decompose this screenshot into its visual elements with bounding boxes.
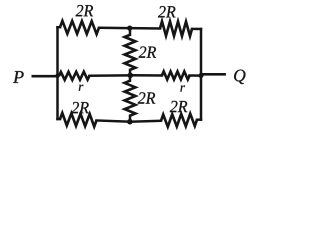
resistor r middle-left	[59, 72, 90, 80]
node Q terminal label	[234, 70, 245, 84]
wire right rail	[200, 29, 203, 120]
label r middle-right	[180, 85, 185, 91]
wire top-mid-left	[99, 26, 130, 29]
wire column mid lead	[129, 70, 132, 81]
label 2R top-left	[76, 5, 93, 16]
wire from P	[33, 75, 58, 78]
node junction left-middle	[55, 74, 59, 78]
label 2R top-right	[158, 6, 175, 17]
wire left rail	[56, 27, 59, 119]
node P terminal label	[13, 71, 24, 83]
resistor 2R top-left	[60, 21, 99, 34]
resistor 2R top-right	[160, 21, 192, 36]
wire bottom-right segment	[197, 118, 201, 121]
label 2R bottom-left	[71, 102, 88, 113]
label 2R column-bottom	[138, 92, 155, 103]
wire bottom-left segment	[58, 118, 61, 121]
node junction right-middle	[199, 73, 204, 78]
wire bottom-mid-right	[130, 120, 161, 123]
wire to Q	[201, 73, 225, 76]
label 2R column-top	[139, 46, 156, 57]
wire middle-right segment	[190, 74, 202, 77]
wire top-left segment	[58, 26, 61, 29]
resistor 2R column-bottom	[125, 81, 136, 116]
resistor 2R bottom-right	[161, 114, 197, 127]
wire column bottom end	[129, 116, 132, 122]
node junction bottom-middle	[127, 119, 133, 125]
wire center to middle-right	[130, 74, 162, 77]
label r middle-left	[79, 85, 84, 91]
wire top-mid-right	[130, 27, 160, 30]
node junction center	[128, 73, 134, 79]
resistor r middle-right	[162, 71, 190, 79]
wire bottom-mid-left	[97, 120, 131, 121]
label 2R bottom-right	[170, 101, 187, 112]
wire column top lead	[129, 28, 132, 35]
resistor 2R column-top	[125, 35, 136, 70]
node junction top-middle	[127, 26, 132, 31]
resistor 2R bottom-left	[60, 113, 97, 127]
wire top-right segment	[192, 28, 201, 31]
wire middle-left to center	[90, 74, 131, 77]
